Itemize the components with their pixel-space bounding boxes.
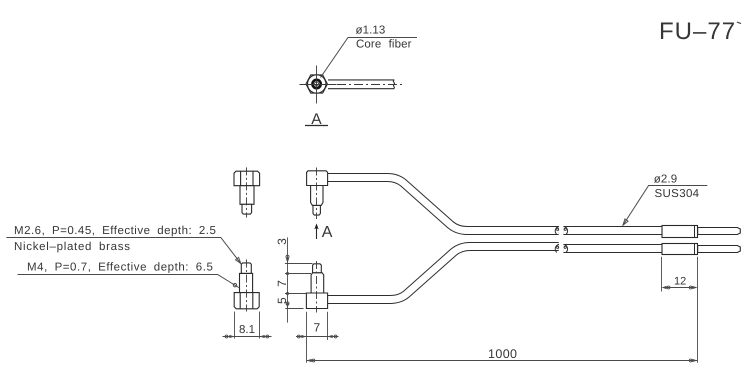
end-view hexagon (view A) (306, 75, 327, 93)
leader M4 (18, 275, 240, 289)
leader M2.6 (6, 238, 241, 264)
lower fiber head (side view, up) (306, 264, 327, 309)
dimension 7 (head width) (296, 312, 339, 363)
cylinder dash-dot centerline (337, 84, 403, 86)
view label A (top) (305, 111, 328, 128)
lower head centerline (316, 261, 318, 313)
svg-text:SUS304: SUS304 (655, 188, 700, 200)
dim arrows/ticks 3-7-5 (286, 255, 289, 308)
leader core fiber (321, 38, 418, 78)
vertical dimension line 3/7/5 (287, 237, 289, 322)
svg-text:M2.6, P=0.45, Effective depth:: M2.6, P=0.45, Effective depth: 2.5 (14, 225, 216, 237)
svg-text:1000: 1000 (488, 347, 517, 361)
extension lines for 3/7/5 dims (285, 237, 313, 322)
svg-text:12: 12 (674, 276, 686, 288)
svg-text:ø2.9: ø2.9 (654, 173, 677, 185)
standoff centerline (246, 167, 248, 217)
svg-text:7: 7 (275, 280, 289, 287)
upper head centerline (316, 168, 318, 220)
right end sleeves: upper (662, 226, 740, 238)
svg-text:3: 3 (275, 238, 289, 245)
core fiber circle (315, 82, 319, 86)
svg-text:FU–77: FU–77 (659, 18, 736, 45)
svg-text:Core fiber: Core fiber (356, 39, 412, 51)
ferrule black ring (312, 80, 320, 88)
wire lower cable (327, 247, 663, 300)
dimension 8.1 (223, 312, 272, 339)
side cylinder at view A (328, 80, 395, 89)
svg-text:A: A (322, 224, 333, 241)
svg-text:Nickel–plated brass: Nickel–plated brass (14, 241, 131, 253)
title FU-77 (659, 18, 741, 45)
right end sleeves: lower (662, 244, 740, 255)
upper fiber head (side view, down) (307, 171, 328, 215)
lower-left part (M4/M2.6 adapter) (234, 263, 259, 309)
end-view centerlines (300, 66, 337, 104)
wire upper cable (327, 178, 663, 231)
lower-left part centerline (246, 260, 248, 312)
svg-text:ø1.13: ø1.13 (356, 24, 386, 36)
svg-text:5: 5 (275, 297, 289, 304)
svg-text:8.1: 8.1 (239, 324, 255, 336)
end-view inscribed circle (308, 75, 326, 93)
break marks on cables (555, 226, 567, 252)
svg-text:7: 7 (314, 320, 321, 334)
leader dia 2.9 / SUS304 (623, 186, 707, 226)
standoff M4 part (upper-left) (234, 171, 260, 214)
dimension 1000 (307, 359, 698, 362)
dimension 12 (662, 257, 698, 363)
view arrow A (points up) (314, 223, 333, 241)
svg-text:M4, P=0.7, Effective depth: 6.: M4, P=0.7, Effective depth: 6.5 (27, 262, 213, 274)
